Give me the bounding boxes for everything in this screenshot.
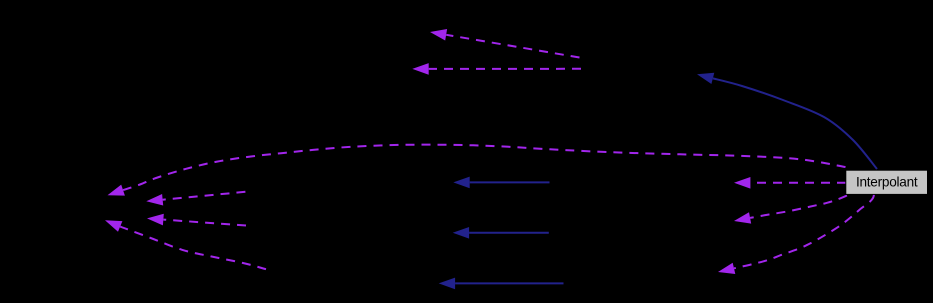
svg-text:Interpolant: Interpolant [856, 175, 918, 190]
dashed usage arrow A4 (long top curve from Interpolant to far-left node) [108, 145, 846, 196]
node Interpolant (current class, gray filled box) [846, 170, 928, 194]
solid inheritance arrow B2 (between invisible nodes, middle) [453, 227, 549, 239]
dashed usage arrow A5 (middle-left upper) [146, 192, 245, 206]
dashed usage arrow A10 (Interpolant to bottom node) [718, 195, 874, 275]
solid inheritance arrow B3 (between invisible nodes, lower) [439, 278, 564, 290]
solid inheritance arrow B1 (between invisible nodes, upper) [453, 177, 549, 189]
dashed usage arrow A8 (Interpolant to middle node, horizontal) [734, 177, 846, 189]
dashed usage arrow A9 (Interpolant to middle node, lower) [734, 196, 847, 224]
dashed usage arrow A1 (upper diagonal, to invisible node) [430, 29, 580, 58]
dashed usage arrow A6 (middle-left lower) [147, 214, 246, 226]
dashed usage arrow A2 (upper horizontal, to invisible node) [412, 63, 581, 75]
dashed usage arrow A7 (bottom curve to far-left node) [105, 220, 266, 269]
solid inheritance arrow A3 (from Interpolant to invisible base class) [697, 73, 877, 169]
